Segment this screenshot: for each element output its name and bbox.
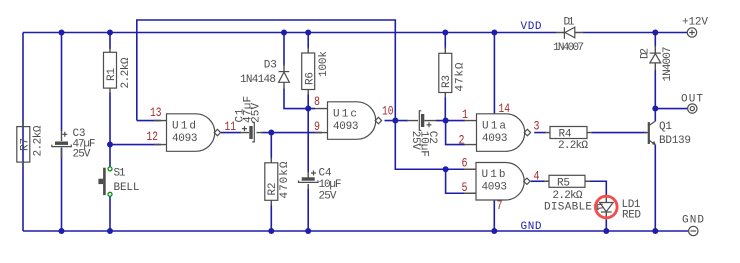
svg-text:25V: 25V — [409, 131, 421, 150]
svg-text:1N4007: 1N4007 — [553, 42, 584, 54]
wire LED bottom to GND — [605, 219, 607, 231]
resistor R1 — [104, 48, 133, 94]
svg-text:2.2kΩ: 2.2kΩ — [120, 57, 132, 88]
svg-text:R1: R1 — [106, 68, 118, 81]
junction R1 top — [107, 30, 113, 36]
svg-text:100k: 100k — [318, 51, 330, 77]
wire R6 bottom — [307, 94, 309, 109]
wire left rail vertical R7 branch — [22, 33, 24, 232]
svg-text:R7: R7 — [20, 138, 32, 151]
svg-text:13: 13 — [150, 105, 162, 120]
svg-text:10: 10 — [382, 104, 394, 119]
svg-text:Q1: Q1 — [659, 121, 672, 133]
svg-text:12: 12 — [147, 129, 159, 144]
junction C1 R2 pin9 node — [268, 130, 274, 136]
diode D2 1N4007 — [640, 46, 675, 82]
wire U1c node down to U1b pin6 — [395, 121, 465, 170]
junction D2 top — [652, 30, 658, 36]
svg-text:3: 3 — [534, 119, 540, 134]
svg-text:470kΩ: 470kΩ — [279, 161, 291, 198]
svg-text:U1d: U1d — [172, 120, 196, 132]
wire U1b pin7 to GND — [493, 200, 495, 231]
wire U1d output to C1 — [221, 132, 241, 134]
svg-text:R6: R6 — [305, 72, 317, 85]
svg-text:25V: 25V — [73, 148, 91, 160]
svg-text:DISABLE: DISABLE — [544, 201, 592, 213]
wire R4 to Q1 base — [592, 132, 647, 134]
terminal +12V — [682, 17, 708, 37]
diode D1 1N4007 — [553, 17, 584, 54]
junction C3 bottom — [59, 228, 65, 234]
svg-text:8: 8 — [314, 94, 320, 109]
junction OUT node — [652, 106, 658, 112]
svg-text:D3: D3 — [264, 59, 277, 71]
wire feedback loop U1c out to pin13 — [137, 20, 396, 121]
op-amp U1a (NAND gate 4093) — [464, 114, 531, 152]
wire VDD top rail left segment — [23, 32, 556, 34]
svg-text:4093: 4093 — [333, 121, 359, 133]
wire C1 to junction to U1c pin9 — [262, 132, 323, 134]
svg-text:R5: R5 — [557, 177, 570, 189]
junction LED bottom — [603, 228, 609, 234]
svg-text:R4: R4 — [559, 129, 572, 141]
svg-text:R3: R3 — [441, 75, 453, 88]
junction C4 bottom — [305, 228, 311, 234]
wire U1c output to node — [385, 120, 396, 122]
terminal OUT — [681, 93, 703, 113]
svg-text:25V: 25V — [251, 103, 263, 123]
wire D3 bottom to pin8 node — [284, 89, 315, 109]
wire U1b output to R5 — [531, 180, 545, 182]
junction U1b pin6 node — [443, 166, 449, 172]
op-amp U1b (NAND gate 4093) — [464, 163, 530, 201]
svg-text:GND: GND — [521, 221, 542, 233]
wire R3 top — [444, 33, 446, 49]
capacitor C1 — [235, 96, 263, 142]
junction D3 R6 pin8 node — [305, 106, 311, 112]
junction C3 top — [59, 30, 65, 36]
wire Q1 emitter to GND — [654, 145, 656, 231]
svg-text:RED: RED — [622, 209, 641, 221]
junction R3 top — [442, 30, 448, 36]
wire GND bottom rail — [23, 230, 688, 232]
red highlight circle around LED — [596, 196, 618, 218]
resistor R2 — [265, 158, 291, 206]
capacitor C4 — [299, 168, 342, 203]
capacitor C2 — [407, 111, 438, 157]
wire OUT node to Q1 collector — [654, 109, 656, 122]
wire D3 top — [283, 33, 285, 66]
wire U1b pin6 to pin5 tie — [446, 169, 465, 193]
terminal GND — [682, 215, 704, 236]
svg-text:2.2kΩ: 2.2kΩ — [33, 125, 45, 156]
svg-text:S1: S1 — [114, 167, 126, 179]
svg-text:2.2kΩ: 2.2kΩ — [558, 140, 588, 152]
wire C2 to U1a pin1 — [436, 120, 465, 122]
svg-text:5: 5 — [462, 180, 468, 195]
junction pin7 bottom — [491, 228, 497, 234]
resistor R7 — [17, 122, 45, 168]
svg-text:9: 9 — [314, 119, 320, 134]
resistor R6 — [302, 48, 330, 95]
svg-text:U1a: U1a — [482, 120, 506, 132]
wire R1 branch top — [109, 33, 111, 50]
LED LD1 RED — [594, 195, 641, 222]
junction R2 bottom — [268, 228, 274, 234]
svg-text:OUT: OUT — [681, 93, 703, 105]
wire C4 branch — [307, 109, 309, 173]
svg-text:1N4148: 1N4148 — [240, 74, 276, 86]
wire OUT node to terminal — [655, 108, 687, 110]
junction S1 bottom — [107, 228, 113, 234]
svg-text:+12V: +12V — [682, 17, 708, 29]
op-amp U1c (NAND gate 4093) — [315, 102, 382, 140]
wire pin12 horizontal — [110, 144, 161, 146]
junction D3 top — [281, 30, 287, 36]
resistor R4 — [545, 127, 592, 153]
wire R2 bottom to GND — [270, 205, 272, 231]
svg-text:4: 4 — [534, 169, 540, 184]
resistor R3 — [439, 48, 467, 98]
svg-text:VDD: VDD — [521, 21, 542, 33]
wire pin13 horizontal — [137, 120, 161, 122]
svg-text:BD139: BD139 — [659, 135, 691, 147]
wire R1 to S1 and pin12 node — [109, 93, 111, 167]
svg-text:GND: GND — [682, 215, 704, 227]
svg-text:2: 2 — [459, 133, 465, 148]
wire C4 bottom to GND — [307, 189, 309, 232]
wire C3 branch top — [61, 33, 63, 132]
svg-text:7: 7 — [497, 198, 503, 213]
wire U1a output to R4 — [534, 132, 546, 134]
junction U1c output node — [392, 118, 398, 124]
wire D2 bottom to OUT node — [654, 70, 656, 109]
wire R5 to LED — [590, 181, 607, 195]
svg-text:U1b: U1b — [482, 169, 506, 181]
svg-text:4093: 4093 — [482, 133, 508, 145]
svg-text:10µF: 10µF — [319, 179, 342, 191]
junction C2 R3 pin1 node — [443, 118, 449, 124]
resistor R5 — [544, 175, 590, 202]
junction pin12 node — [107, 142, 113, 148]
wire S1 bottom to GND rail — [109, 196, 111, 231]
svg-text:D1: D1 — [564, 17, 575, 29]
svg-text:D2: D2 — [640, 48, 652, 59]
svg-text:4093: 4093 — [482, 182, 508, 194]
capacitor C3 — [52, 128, 96, 161]
transistor Q1 BD139 — [644, 121, 691, 147]
svg-text:1N4007: 1N4007 — [662, 47, 674, 82]
wire node to C2 — [395, 120, 408, 122]
svg-text:4093: 4093 — [172, 133, 198, 145]
svg-text:6: 6 — [462, 156, 468, 171]
diode D3 1N4148 — [240, 59, 289, 89]
svg-text:14: 14 — [499, 101, 511, 116]
svg-text:11: 11 — [225, 119, 237, 134]
svg-text:47kΩ: 47kΩ — [455, 62, 467, 91]
svg-text:25V: 25V — [319, 191, 337, 203]
wire D2 top — [654, 33, 656, 47]
junction pin14 top — [491, 30, 497, 36]
svg-text:C4: C4 — [319, 168, 332, 180]
wire VDD top rail right segment after D1 — [583, 32, 687, 34]
wire R2 branch — [270, 133, 272, 159]
svg-text:2.2kΩ: 2.2kΩ — [553, 190, 583, 202]
wire C3 branch bottom — [61, 148, 63, 231]
switch S1 BELL pushbutton — [98, 167, 139, 196]
wire R3 bottom — [444, 97, 446, 121]
svg-text:R2: R2 — [267, 183, 279, 196]
junction R6 top — [305, 30, 311, 36]
svg-text:1: 1 — [462, 107, 468, 122]
svg-text:U1c: U1c — [333, 108, 357, 120]
op-amp U1d (NAND gate 4093) — [154, 114, 221, 152]
wire R6 top — [307, 33, 309, 49]
wire U1a pin1 to pin2 tie — [446, 121, 465, 145]
svg-text:BELL: BELL — [114, 182, 140, 194]
junction Q1 emitter bottom — [652, 228, 658, 234]
wire pin14 vertical — [493, 33, 495, 114]
